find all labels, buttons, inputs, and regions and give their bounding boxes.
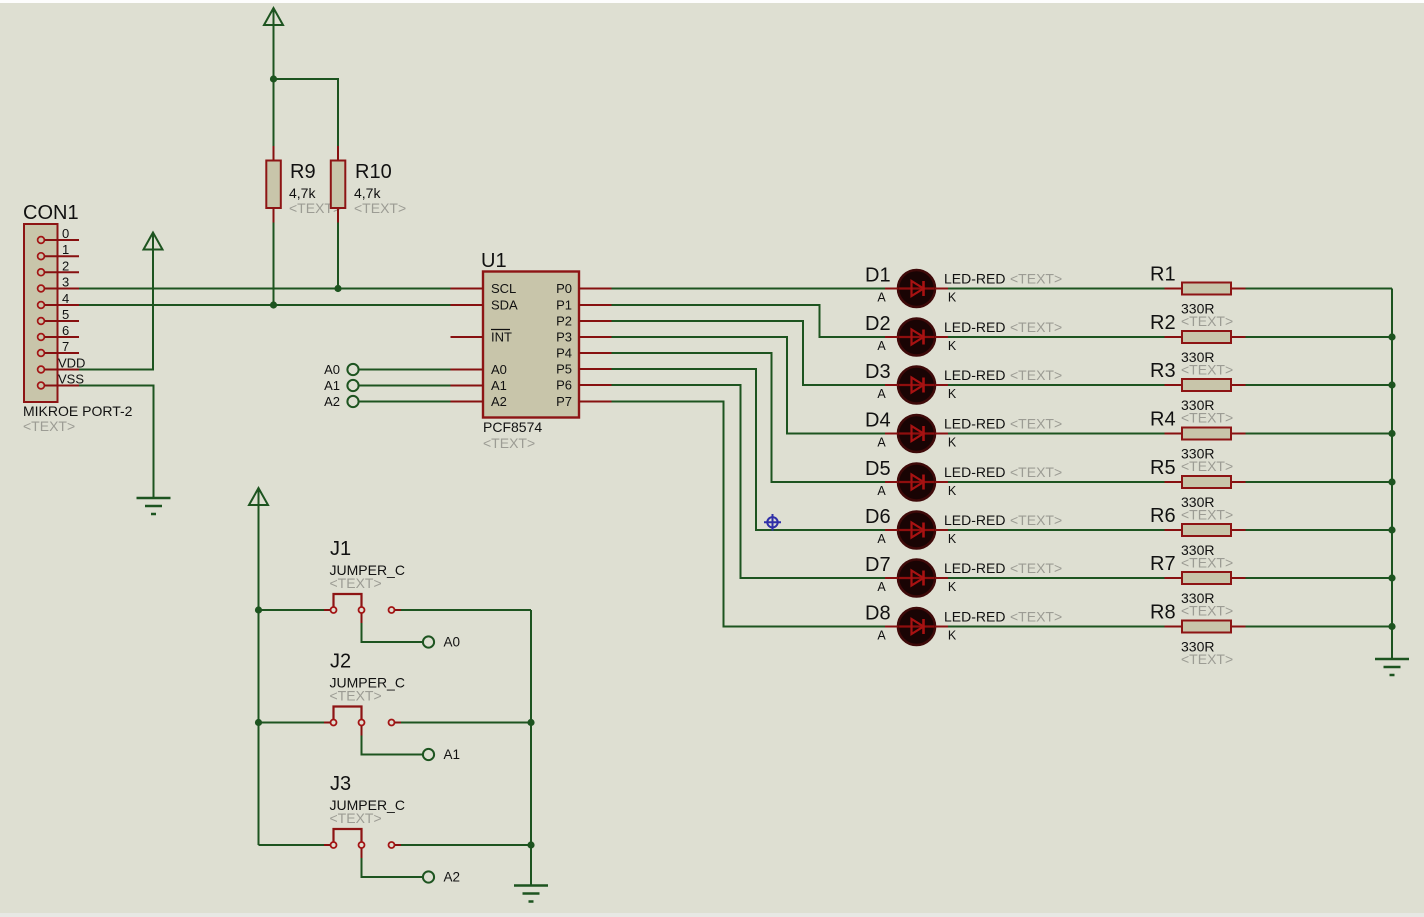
svg-text:R9: R9 (290, 161, 316, 183)
terminal A2 at U1 (324, 394, 450, 409)
svg-text:A2: A2 (324, 394, 340, 409)
wire net P4 to LED D5 (612, 353, 886, 482)
svg-text:D4: D4 (865, 410, 891, 432)
node junction J2/bus (255, 719, 262, 726)
svg-text:A0: A0 (324, 362, 340, 377)
svg-text:PCF8574: PCF8574 (483, 419, 542, 435)
U1 pin INT stub (451, 336, 484, 338)
node junction J1/bus (255, 606, 262, 613)
svg-text:<TEXT>: <TEXT> (1181, 410, 1233, 426)
svg-text:LED-RED: LED-RED (944, 609, 1005, 625)
wire net P1 to LED D2 (612, 305, 886, 337)
svg-text:5: 5 (62, 307, 69, 322)
terminal A1 at U1 (324, 378, 450, 393)
U1 pin P1 stub (579, 304, 612, 306)
resistor R5 330R (1150, 457, 1246, 523)
svg-text:D1: D1 (865, 265, 891, 287)
svg-text:CON1: CON1 (23, 202, 79, 224)
svg-text:LED-RED: LED-RED (944, 464, 1005, 480)
svg-text:J2: J2 (330, 651, 351, 673)
svg-text:<TEXT>: <TEXT> (1010, 367, 1062, 383)
power symbol VCC top (264, 8, 283, 25)
wire J2 pin3 to right bus (401, 722, 531, 724)
svg-text:<TEXT>: <TEXT> (330, 575, 382, 591)
svg-text:P7: P7 (556, 394, 572, 409)
wire J1 pin3 to right bus (401, 609, 531, 611)
CON1 pin 7 (38, 350, 45, 357)
svg-text:K: K (948, 339, 957, 353)
resistor R2 330R (1150, 312, 1246, 378)
wire D3 cathode to R3 (948, 384, 1165, 386)
resistor R10 (331, 146, 406, 223)
jumper J1 JUMPER_C (324, 538, 405, 623)
wire bus to J1 pin1 (259, 609, 325, 611)
svg-text:D3: D3 (865, 361, 891, 383)
svg-text:A: A (877, 580, 886, 594)
wire J3 pin2 to terminal A2 (362, 858, 423, 877)
svg-text:K: K (948, 291, 957, 305)
svg-text:<TEXT>: <TEXT> (1010, 416, 1062, 432)
wire J3 pin3 to right bus (401, 844, 531, 846)
svg-text:<TEXT>: <TEXT> (1010, 560, 1062, 576)
wire J2 pin2 to terminal A1 (362, 736, 423, 755)
wire VDD net (79, 250, 153, 370)
svg-text:K: K (948, 387, 957, 401)
svg-text:0: 0 (62, 226, 69, 241)
U1 pin P2 stub (579, 320, 612, 322)
CON1 pin 6 (38, 334, 45, 341)
svg-text:<TEXT>: <TEXT> (330, 688, 382, 704)
wire net P5 to LED D6 (612, 369, 886, 530)
resistor R4 330R (1150, 409, 1246, 475)
svg-text:P4: P4 (556, 346, 572, 361)
CON1 pin 4 (38, 302, 45, 309)
svg-text:P6: P6 (556, 378, 572, 393)
wire jumper VCC bus (258, 505, 260, 845)
wire jumper right ground bus (530, 610, 532, 886)
svg-text:A: A (877, 484, 886, 498)
svg-text:A2: A2 (444, 870, 461, 885)
svg-text:J3: J3 (330, 773, 351, 795)
wire D4 cathode to R4 (948, 433, 1165, 435)
node junction R8/bus (1388, 623, 1395, 630)
svg-text:6: 6 (62, 323, 69, 338)
svg-text:3: 3 (62, 275, 69, 290)
wire R4 to ground bus (1246, 433, 1393, 435)
terminal A1 at J2 (423, 747, 460, 762)
svg-text:<TEXT>: <TEXT> (1181, 651, 1233, 667)
svg-text:A1: A1 (444, 747, 461, 762)
svg-text:P3: P3 (556, 330, 572, 345)
CON1 pin VDD (38, 366, 45, 373)
svg-text:R7: R7 (1150, 553, 1176, 575)
svg-text:<TEXT>: <TEXT> (1010, 609, 1062, 625)
CON1 pin VSS (38, 382, 45, 389)
wire R8 to ground bus (1246, 626, 1393, 628)
node junction R5/bus (1388, 478, 1395, 485)
svg-text:MIKROE PORT-2: MIKROE PORT-2 (23, 403, 133, 419)
svg-text:A0: A0 (491, 362, 507, 377)
svg-text:R10: R10 (355, 161, 392, 183)
terminal A0 at U1 (324, 362, 450, 377)
svg-text:D6: D6 (865, 506, 891, 528)
wire right ground bus (1391, 289, 1393, 660)
svg-text:4,7k: 4,7k (354, 185, 381, 201)
svg-text:U1: U1 (481, 250, 507, 272)
resistor R8 330R (1150, 602, 1246, 668)
U1 pin SDA stub (451, 304, 484, 306)
svg-text:K: K (948, 484, 957, 498)
svg-text:<TEXT>: <TEXT> (354, 200, 406, 216)
wire R10 bottom to SCL net (337, 223, 339, 289)
wire R2 to ground bus (1246, 336, 1393, 338)
svg-text:A1: A1 (324, 378, 340, 393)
wire D7 cathode to R7 (948, 577, 1165, 579)
svg-text:VSS: VSS (58, 372, 84, 387)
node junction R6/bus (1388, 526, 1395, 533)
CON1 pin 1 (38, 253, 45, 260)
wire R7 to ground bus (1246, 577, 1393, 579)
U1 pin P3 stub (579, 336, 612, 338)
svg-text:A: A (877, 629, 886, 643)
resistor R7 330R (1150, 553, 1246, 619)
U1 pin P5 stub (579, 368, 612, 370)
svg-text:<TEXT>: <TEXT> (330, 810, 382, 826)
resistor R6 330R (1150, 505, 1246, 571)
U1 pin P6 stub (579, 384, 612, 386)
svg-text:R6: R6 (1150, 505, 1176, 527)
svg-text:K: K (948, 580, 957, 594)
svg-text:R1: R1 (1150, 264, 1176, 286)
node junction R9/SDA (270, 301, 277, 308)
svg-text:2: 2 (62, 258, 69, 273)
node junction R7/bus (1388, 574, 1395, 581)
svg-text:<TEXT>: <TEXT> (1010, 271, 1062, 287)
node junction R3/bus (1388, 381, 1395, 388)
wire D5 cathode to R5 (948, 481, 1165, 483)
svg-text:VDD: VDD (58, 356, 85, 371)
origin marker (764, 514, 781, 531)
node junction J2 right/bus (527, 719, 534, 726)
node junction R4/bus (1388, 430, 1395, 437)
svg-text:<TEXT>: <TEXT> (1181, 507, 1233, 523)
wire net P7 to LED D8 (612, 402, 886, 627)
svg-text:<TEXT>: <TEXT> (1010, 464, 1062, 480)
svg-text:A: A (877, 436, 886, 450)
svg-text:4,7k: 4,7k (289, 185, 316, 201)
svg-text:K: K (948, 629, 957, 643)
svg-text:LED-RED: LED-RED (944, 367, 1005, 383)
svg-text:K: K (948, 532, 957, 546)
svg-text:<TEXT>: <TEXT> (1010, 512, 1062, 528)
svg-text:<TEXT>: <TEXT> (1181, 555, 1233, 571)
svg-text:<TEXT>: <TEXT> (1181, 603, 1233, 619)
resistor R3 330R (1150, 360, 1246, 426)
svg-text:A0: A0 (444, 635, 461, 650)
U1 pin A1 stub (451, 385, 484, 387)
svg-text:D7: D7 (865, 554, 891, 576)
U1 pin P4 stub (579, 352, 612, 354)
svg-text:A: A (877, 291, 886, 305)
connector CON1 MIKROE PORT-2 (23, 202, 133, 434)
ground symbol VSS (137, 498, 171, 514)
svg-text:P5: P5 (556, 362, 572, 377)
svg-text:<TEXT>: <TEXT> (483, 435, 535, 451)
svg-text:<TEXT>: <TEXT> (1181, 458, 1233, 474)
wire R5 to ground bus (1246, 481, 1393, 483)
svg-text:LED-RED: LED-RED (944, 271, 1005, 287)
svg-text:LED-RED: LED-RED (944, 319, 1005, 335)
ground symbol right bus (1375, 659, 1409, 675)
CON1 pin 2 (38, 269, 45, 276)
svg-text:7: 7 (62, 339, 69, 354)
LED D7 LED-RED (865, 554, 1062, 597)
LED D6 LED-RED (865, 506, 1062, 549)
svg-text:A: A (877, 387, 886, 401)
wire net P3 to LED D4 (612, 337, 886, 434)
svg-text:R4: R4 (1150, 409, 1176, 431)
svg-text:1: 1 (62, 242, 69, 257)
node junction VCC branch (270, 75, 277, 82)
wire J1 pin2 to terminal A0 (362, 623, 423, 642)
svg-text:P2: P2 (556, 314, 572, 329)
terminal A0 at J1 (423, 635, 460, 650)
U1 INT overline (491, 329, 510, 331)
wire bus to J2 pin1 (259, 722, 325, 724)
U1 pin A0 stub (451, 369, 484, 371)
wire VCC to R9 top (273, 79, 275, 146)
svg-text:<TEXT>: <TEXT> (1010, 319, 1062, 335)
node junction R10/SCL (334, 285, 341, 292)
svg-text:LED-RED: LED-RED (944, 512, 1005, 528)
svg-text:A: A (877, 532, 886, 546)
svg-text:4: 4 (62, 291, 69, 306)
wire net P0 to LED D1 (612, 288, 886, 290)
jumper J2 JUMPER_C (324, 651, 405, 736)
wire SCL net CON1 pin3 to U1 (79, 288, 451, 290)
LED D1 LED-RED (865, 265, 1062, 308)
LED D8 LED-RED (865, 603, 1062, 646)
svg-text:SDA: SDA (491, 298, 518, 313)
wire SDA net CON1 pin4 to U1 (79, 304, 451, 306)
CON1 pin 0 (38, 237, 45, 244)
svg-text:LED-RED: LED-RED (944, 416, 1005, 432)
power symbol VDD arrow (144, 233, 163, 250)
svg-text:<TEXT>: <TEXT> (1181, 313, 1233, 329)
power symbol jumper rail (249, 488, 268, 505)
jumper J3 JUMPER_C (324, 773, 405, 858)
svg-text:A1: A1 (491, 378, 507, 393)
wire net P2 to LED D3 (612, 321, 886, 385)
wire R1 to ground bus (1246, 288, 1393, 290)
svg-text:A2: A2 (491, 394, 507, 409)
wire bus to J3 pin1 (259, 844, 325, 846)
LED D5 LED-RED (865, 458, 1062, 501)
svg-text:A: A (877, 339, 886, 353)
U1 pin P0 stub (579, 288, 612, 290)
wire R9 bottom to SDA net (273, 223, 275, 306)
wire D2 cathode to R2 (948, 336, 1165, 338)
resistor R9 (266, 146, 341, 223)
LED D4 LED-RED (865, 410, 1062, 453)
svg-text:R8: R8 (1150, 602, 1176, 624)
svg-text:R2: R2 (1150, 312, 1176, 334)
wire VSS net (79, 386, 154, 499)
svg-text:P0: P0 (556, 281, 572, 296)
terminal A2 at J3 (423, 870, 460, 885)
wire D8 cathode to R8 (948, 626, 1165, 628)
svg-text:LED-RED: LED-RED (944, 560, 1005, 576)
wire R3 to ground bus (1246, 384, 1393, 386)
svg-text:<TEXT>: <TEXT> (1181, 362, 1233, 378)
resistor R1 330R (1150, 264, 1246, 330)
svg-text:R5: R5 (1150, 457, 1176, 479)
svg-text:D5: D5 (865, 458, 891, 480)
svg-text:D2: D2 (865, 313, 891, 335)
svg-text:<TEXT>: <TEXT> (23, 418, 75, 434)
wire D6 cathode to R6 (948, 529, 1165, 531)
U1 pin A2 stub (451, 401, 484, 403)
op-amp U1 PCF8574 I/O expander (451, 250, 612, 451)
svg-text:K: K (948, 436, 957, 450)
LED D3 LED-RED (865, 361, 1062, 404)
wire VCC down to junction (273, 25, 275, 79)
wire R6 to ground bus (1246, 529, 1393, 531)
svg-text:SCL: SCL (491, 281, 516, 296)
wire D1 cathode to R1 (948, 288, 1165, 290)
ground symbol jumper bus (514, 886, 548, 902)
svg-text:R3: R3 (1150, 360, 1176, 382)
svg-text:J1: J1 (330, 538, 351, 560)
node junction R2/bus (1388, 333, 1395, 340)
svg-text:D8: D8 (865, 603, 891, 625)
LED D2 LED-RED (865, 313, 1062, 356)
CON1 pin 5 (38, 318, 45, 325)
wire junction to R10 branch (274, 79, 339, 146)
svg-text:INT: INT (491, 330, 512, 345)
U1 pin SCL stub (451, 288, 484, 290)
CON1 pin 3 (38, 285, 45, 292)
U1 pin P7 stub (579, 401, 612, 403)
wire net P6 to LED D7 (612, 385, 886, 578)
svg-text:P1: P1 (556, 298, 572, 313)
node junction J3 right/bus (527, 841, 534, 848)
